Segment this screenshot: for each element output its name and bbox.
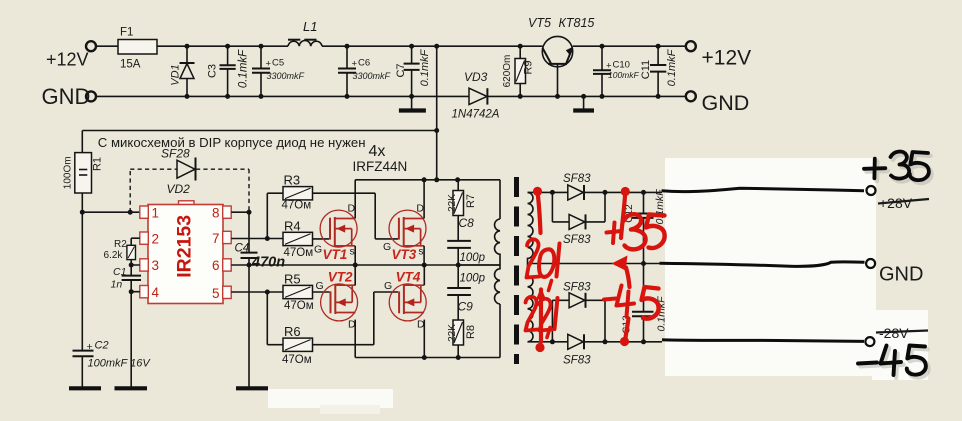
svg-text:+: + bbox=[266, 59, 272, 70]
svg-text:R5: R5 bbox=[284, 271, 301, 286]
svg-text:VT2: VT2 bbox=[328, 270, 353, 285]
svg-text:C4: C4 bbox=[235, 243, 250, 255]
svg-text:IR2153: IR2153 bbox=[174, 215, 196, 278]
svg-text:D: D bbox=[348, 203, 356, 215]
svg-text:R2: R2 bbox=[114, 239, 127, 250]
svg-text:5: 5 bbox=[212, 286, 220, 301]
svg-text:C2: C2 bbox=[95, 340, 109, 352]
svg-text:VT1: VT1 bbox=[323, 247, 348, 262]
svg-text:SF83: SF83 bbox=[563, 282, 591, 294]
svg-text:7: 7 bbox=[212, 231, 220, 246]
svg-text:C8: C8 bbox=[459, 216, 475, 230]
svg-text:0.1mkF: 0.1mkF bbox=[666, 48, 678, 86]
svg-text:47Ом: 47Ом bbox=[282, 200, 312, 212]
svg-text:R4: R4 bbox=[284, 218, 301, 233]
svg-text:0.1mkF: 0.1mkF bbox=[654, 189, 666, 225]
svg-text:F1: F1 bbox=[120, 27, 133, 39]
svg-text:1n: 1n bbox=[111, 279, 123, 291]
svg-text:4: 4 bbox=[152, 285, 160, 300]
svg-text:GND: GND bbox=[702, 91, 750, 115]
svg-text:C10: C10 bbox=[613, 60, 630, 71]
svg-text:0.1mkF: 0.1mkF bbox=[419, 48, 431, 86]
svg-text:+: + bbox=[352, 59, 358, 70]
svg-text:1N4742A: 1N4742A bbox=[452, 109, 500, 121]
svg-text:22K: 22K bbox=[447, 324, 458, 342]
svg-text:VD3: VD3 bbox=[464, 70, 488, 84]
svg-text:47Ом: 47Ом bbox=[284, 300, 314, 312]
svg-text:D: D bbox=[417, 319, 425, 331]
svg-text:100mkF 16V: 100mkF 16V bbox=[88, 358, 152, 370]
svg-text:C6: C6 bbox=[358, 58, 370, 69]
svg-text:C1: C1 bbox=[113, 266, 126, 278]
svg-text:R9: R9 bbox=[523, 60, 535, 74]
svg-text:4х: 4х bbox=[369, 143, 386, 160]
svg-text:GND: GND bbox=[42, 84, 91, 109]
svg-text:470n: 470n bbox=[251, 255, 285, 271]
svg-text:1: 1 bbox=[152, 206, 160, 221]
svg-text:15A: 15A bbox=[120, 59, 141, 71]
svg-text:100mkF: 100mkF bbox=[608, 70, 640, 80]
svg-text:VT4: VT4 bbox=[396, 270, 421, 285]
svg-text:3: 3 bbox=[152, 258, 160, 273]
svg-text:GND: GND bbox=[879, 264, 923, 286]
svg-text:C7: C7 bbox=[395, 63, 407, 77]
svg-text:100p: 100p bbox=[460, 273, 486, 285]
svg-text:VT3: VT3 bbox=[392, 247, 417, 262]
svg-text:L1: L1 bbox=[303, 19, 317, 34]
svg-text:VD2: VD2 bbox=[167, 182, 191, 196]
svg-text:22K: 22K bbox=[447, 194, 458, 212]
svg-text:C3: C3 bbox=[207, 64, 219, 78]
svg-text:C11: C11 bbox=[640, 60, 652, 79]
svg-text:C5: C5 bbox=[272, 58, 284, 69]
svg-text:8: 8 bbox=[212, 206, 220, 221]
svg-text:R7: R7 bbox=[465, 194, 477, 208]
svg-text:D: D bbox=[348, 319, 356, 331]
svg-text:G: G bbox=[383, 241, 391, 253]
svg-text:s: s bbox=[418, 246, 423, 258]
svg-text:SF83: SF83 bbox=[563, 173, 591, 185]
svg-text:VT5: VT5 bbox=[528, 16, 551, 30]
svg-text:47Ом: 47Ом bbox=[282, 354, 312, 366]
svg-text:6.2k: 6.2k bbox=[104, 250, 124, 261]
svg-text:SF83: SF83 bbox=[563, 234, 591, 246]
svg-text:+12V: +12V bbox=[46, 50, 89, 70]
svg-text:КТ815: КТ815 bbox=[559, 16, 595, 30]
svg-text:SF83: SF83 bbox=[563, 355, 591, 367]
svg-text:47Ом: 47Ом bbox=[284, 247, 314, 259]
svg-text:SF28: SF28 bbox=[161, 147, 190, 161]
svg-text:+12V: +12V bbox=[702, 47, 752, 70]
svg-text:R3: R3 bbox=[284, 173, 301, 188]
svg-text:2: 2 bbox=[152, 232, 160, 247]
svg-text:s: s bbox=[350, 246, 355, 258]
svg-text:G: G bbox=[316, 280, 324, 292]
svg-text:G: G bbox=[314, 244, 322, 256]
svg-text:VD1: VD1 bbox=[170, 64, 182, 85]
svg-text:0.1mkF: 0.1mkF bbox=[238, 49, 250, 88]
svg-text:R1: R1 bbox=[92, 157, 104, 171]
svg-text:R6: R6 bbox=[284, 324, 301, 339]
svg-text:R8: R8 bbox=[465, 325, 477, 339]
svg-text:+: + bbox=[87, 341, 93, 353]
svg-text:3300mkF: 3300mkF bbox=[353, 71, 391, 81]
svg-text:G: G bbox=[384, 280, 392, 292]
svg-text:100Om: 100Om bbox=[63, 156, 74, 189]
svg-text:C9: C9 bbox=[458, 300, 474, 314]
svg-text:3300mkF: 3300mkF bbox=[267, 71, 305, 81]
svg-text:D: D bbox=[416, 203, 424, 215]
svg-text:IRFZ44N: IRFZ44N bbox=[353, 159, 408, 174]
svg-text:620Om: 620Om bbox=[502, 55, 513, 88]
svg-text:6: 6 bbox=[212, 258, 220, 273]
svg-text:100p: 100p bbox=[460, 252, 486, 264]
svg-text:С микосхемой в DIP корпусе дио: С микосхемой в DIP корпусе диод не нужен bbox=[98, 135, 366, 150]
